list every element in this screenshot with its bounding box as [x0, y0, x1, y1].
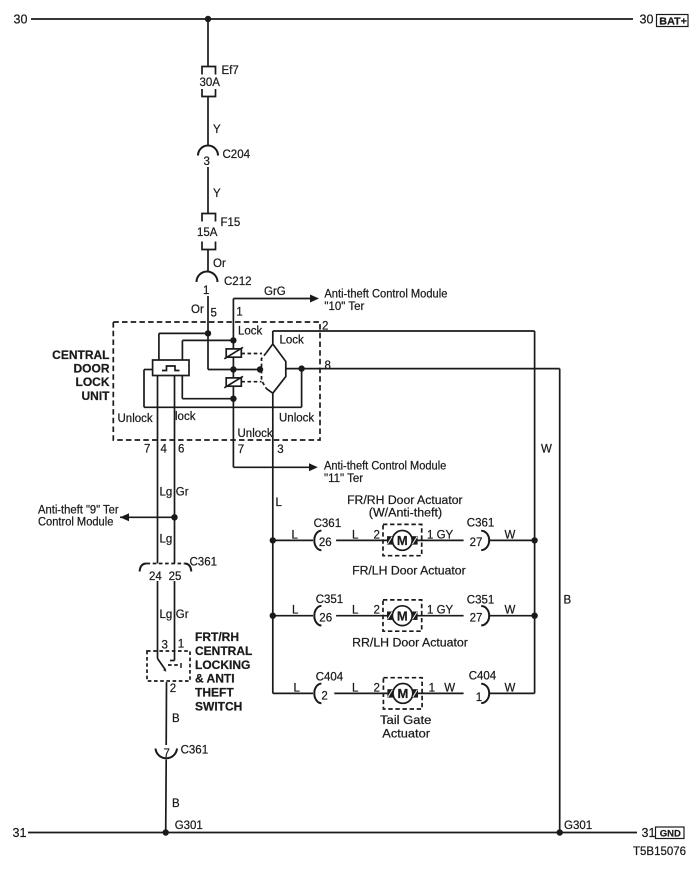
svg-text:Y: Y [213, 124, 221, 136]
svg-text:L: L [294, 682, 301, 694]
svg-text:Unlock: Unlock [279, 413, 314, 425]
svg-text:BAT+: BAT+ [659, 16, 687, 27]
svg-text:FRT/RH: FRT/RH [195, 630, 239, 644]
svg-text:SWITCH: SWITCH [195, 700, 242, 714]
svg-text:M: M [397, 608, 408, 623]
svg-text:Lg: Lg [160, 609, 173, 621]
svg-text:Actuator: Actuator [382, 729, 430, 741]
svg-text:1 GY: 1 GY [427, 605, 454, 617]
svg-text:Lock: Lock [280, 335, 305, 347]
svg-text:FR/RH Door Actuator: FR/RH Door Actuator [347, 495, 463, 507]
svg-text:C212: C212 [224, 276, 252, 288]
svg-text:DOOR: DOOR [74, 362, 110, 376]
svg-text:C204: C204 [223, 149, 251, 161]
svg-text:C351: C351 [316, 594, 344, 606]
svg-text:Unlock: Unlock [118, 413, 153, 425]
svg-text:F15: F15 [221, 217, 241, 229]
svg-text:Gr: Gr [176, 487, 189, 499]
svg-text:CENTRAL: CENTRAL [195, 644, 252, 658]
svg-text:B: B [172, 713, 180, 725]
svg-text:26: 26 [319, 537, 332, 549]
svg-text:Or: Or [191, 304, 204, 316]
svg-text:RR/LH Door Actuator: RR/LH Door Actuator [352, 638, 468, 650]
svg-text:GND: GND [660, 828, 681, 839]
svg-text:2: 2 [374, 682, 380, 694]
svg-text:C361: C361 [314, 518, 342, 530]
svg-text:2: 2 [374, 530, 380, 542]
svg-text:3: 3 [204, 156, 210, 168]
svg-text:2: 2 [374, 605, 380, 617]
svg-text:C351: C351 [467, 595, 495, 607]
svg-text:1: 1 [476, 692, 482, 704]
svg-text:L: L [292, 605, 299, 617]
svg-text:4: 4 [161, 444, 168, 456]
svg-text:Y: Y [213, 188, 221, 200]
svg-text:C404: C404 [316, 671, 344, 683]
svg-text:C361: C361 [467, 518, 495, 530]
svg-text:LOCKING: LOCKING [195, 658, 250, 672]
svg-text:W: W [505, 605, 516, 617]
svg-text:B: B [564, 595, 572, 607]
svg-text:C404: C404 [469, 671, 497, 683]
svg-text:Anti-theft "9" Ter: Anti-theft "9" Ter [38, 505, 119, 517]
svg-text:15A: 15A [197, 227, 218, 239]
svg-text:G301: G301 [564, 820, 592, 832]
svg-text:24: 24 [149, 571, 162, 583]
svg-text:3: 3 [162, 640, 168, 652]
svg-text:26: 26 [319, 612, 332, 624]
svg-text:L: L [276, 497, 283, 509]
svg-text:THEFT: THEFT [195, 686, 234, 700]
svg-text:L: L [352, 605, 359, 617]
svg-text:30: 30 [14, 12, 28, 26]
svg-text:(W/Anti-theft): (W/Anti-theft) [369, 508, 442, 520]
svg-text:FR/LH Door Actuator: FR/LH Door Actuator [352, 566, 466, 578]
svg-text:W: W [541, 444, 552, 456]
svg-text:3: 3 [277, 444, 283, 456]
svg-text:Lg: Lg [160, 534, 173, 546]
svg-text:25: 25 [169, 571, 182, 583]
svg-text:Lock: Lock [238, 326, 263, 338]
svg-text:GrG: GrG [264, 286, 286, 298]
svg-text:27: 27 [470, 612, 483, 624]
svg-text:Control Module: Control Module [38, 517, 113, 529]
svg-text:Tail Gate: Tail Gate [380, 715, 431, 727]
svg-text:L: L [292, 530, 299, 542]
svg-text:& ANTI: & ANTI [195, 672, 235, 686]
svg-text:30A: 30A [200, 77, 221, 89]
svg-text:C361: C361 [190, 557, 218, 569]
svg-text:L: L [352, 682, 359, 694]
svg-text:Anti-theft Control Module: Anti-theft Control Module [324, 461, 446, 473]
svg-text:Gr: Gr [176, 609, 189, 621]
svg-text:30: 30 [640, 12, 654, 26]
svg-text:31: 31 [13, 826, 27, 840]
svg-text:31: 31 [642, 826, 656, 840]
svg-text:1: 1 [236, 307, 242, 319]
svg-text:5: 5 [211, 308, 217, 320]
svg-text:W: W [444, 682, 455, 694]
svg-text:27: 27 [470, 537, 483, 549]
svg-text:CENTRAL: CENTRAL [52, 348, 109, 362]
svg-text:T5B15076: T5B15076 [633, 846, 686, 858]
svg-text:Ef7: Ef7 [222, 65, 239, 77]
svg-text:2: 2 [321, 691, 327, 703]
svg-text:"10" Ter: "10" Ter [324, 301, 364, 313]
svg-text:lock: lock [175, 411, 196, 423]
svg-text:7: 7 [144, 444, 150, 456]
svg-text:1: 1 [203, 285, 209, 297]
svg-text:LOCK: LOCK [76, 375, 110, 389]
svg-text:"11" Ter: "11" Ter [324, 473, 363, 485]
svg-text:2: 2 [322, 321, 328, 333]
svg-text:6: 6 [178, 444, 184, 456]
svg-text:1: 1 [429, 682, 435, 694]
svg-text:7: 7 [164, 748, 170, 760]
svg-text:2: 2 [170, 683, 176, 695]
svg-text:1 GY: 1 GY [427, 530, 454, 542]
svg-text:8: 8 [325, 360, 331, 372]
svg-text:C361: C361 [181, 745, 209, 757]
svg-text:B: B [172, 798, 180, 810]
svg-text:M: M [397, 686, 408, 701]
svg-text:M: M [397, 533, 408, 548]
svg-text:L: L [352, 530, 359, 542]
svg-text:Anti-theft Control Module: Anti-theft Control Module [324, 288, 447, 300]
svg-text:G301: G301 [175, 820, 203, 832]
svg-text:W: W [505, 682, 516, 694]
svg-text:7: 7 [238, 444, 244, 456]
svg-text:Lg: Lg [160, 487, 173, 499]
svg-text:1: 1 [178, 639, 184, 651]
svg-text:Or: Or [213, 258, 226, 270]
svg-text:Unlock: Unlock [238, 428, 273, 440]
svg-text:W: W [505, 530, 516, 542]
svg-text:UNIT: UNIT [82, 389, 111, 403]
